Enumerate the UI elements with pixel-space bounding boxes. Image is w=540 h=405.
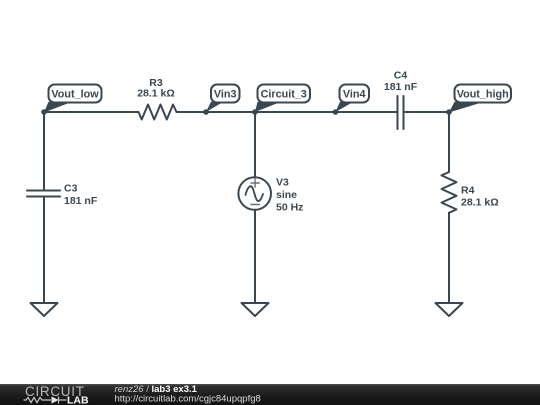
svg-text:C3: C3 [64, 183, 78, 195]
svg-text:Vout_low: Vout_low [51, 89, 99, 101]
svg-text:181 nF: 181 nF [64, 195, 98, 207]
svg-text:Vin4: Vin4 [343, 89, 366, 101]
svg-text:28.1 kΩ: 28.1 kΩ [137, 88, 175, 100]
svg-text:V3: V3 [276, 177, 289, 189]
svg-text:50 Hz: 50 Hz [276, 202, 303, 214]
svg-text:R4: R4 [461, 185, 475, 197]
svg-text:Vin3: Vin3 [214, 89, 237, 101]
svg-text:Vout_high: Vout_high [457, 89, 509, 101]
svg-text:Circuit_3: Circuit_3 [261, 89, 307, 101]
svg-text:LAB: LAB [67, 395, 89, 405]
svg-text:28.1 kΩ: 28.1 kΩ [461, 197, 499, 209]
svg-text:http://circuitlab.com/cgjc84up: http://circuitlab.com/cgjc84upqpfg8 [115, 394, 261, 405]
svg-text:C4: C4 [394, 70, 408, 82]
svg-text:sine: sine [276, 189, 297, 201]
svg-text:181 nF: 181 nF [384, 81, 418, 93]
